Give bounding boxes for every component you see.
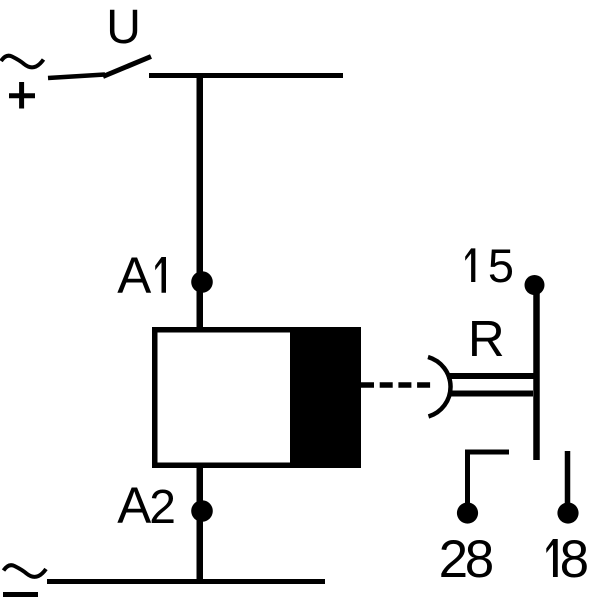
svg-text:8: 8 (560, 530, 589, 589)
svg-text:U: U (106, 1, 141, 54)
svg-text:5: 5 (488, 239, 514, 292)
svg-text:A: A (117, 247, 151, 304)
svg-text:A: A (117, 477, 151, 534)
svg-text:2: 2 (149, 481, 176, 534)
svg-text:R: R (468, 310, 505, 367)
svg-text:8: 8 (465, 530, 494, 589)
